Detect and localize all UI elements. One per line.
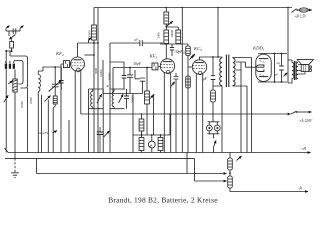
capacitor C7 xyxy=(124,96,129,98)
tube V1 KF4 xyxy=(71,57,85,71)
wire output verticals xyxy=(275,54,282,83)
switch S5 (battery switch top right) xyxy=(292,9,297,13)
wire x36 drop xyxy=(37,158,227,173)
wire anode net V2 xyxy=(160,43,188,45)
switch S6 xyxy=(119,94,124,103)
transformer T2 (output) xyxy=(292,63,294,79)
svg-text:KF3: KF3 xyxy=(149,54,158,60)
coil L1 (antenna coil, iron core) xyxy=(13,79,17,92)
resistor R3 xyxy=(53,96,57,104)
svg-text:+B 1,5V: +B 1,5V xyxy=(294,15,307,20)
capacitor C1 (antenna series) xyxy=(13,28,16,33)
switch S2 (wave change) xyxy=(45,96,51,102)
capacitor C16 (grid block V1) xyxy=(63,61,69,68)
switch S10 xyxy=(213,141,216,148)
capacitor C9 xyxy=(170,48,175,50)
wire second frame xyxy=(41,95,43,153)
svg-text:5000: 5000 xyxy=(157,32,161,39)
capacitor C17 (V2 anode trimmer) xyxy=(174,77,179,80)
capacitor C11 (bypass with switch) xyxy=(97,132,103,134)
fuse Si3 xyxy=(228,176,233,188)
antenna terminal A2 xyxy=(20,26,24,31)
wire plate supply x213 xyxy=(212,57,214,90)
svg-text:KF4: KF4 xyxy=(55,51,64,57)
resistor R8 xyxy=(187,44,189,46)
wire coil return xyxy=(27,88,29,153)
node top bus junctions xyxy=(166,7,168,9)
ground (dashed lead + earth) xyxy=(14,158,16,172)
resistor R1 xyxy=(10,42,14,49)
svg-text:Lg: Lg xyxy=(276,61,281,65)
coil L2 (basket loops) xyxy=(10,56,28,88)
wire top anode bus xyxy=(94,7,292,9)
wire B+ rail x218 xyxy=(217,8,219,58)
wire W2 grid V2 xyxy=(113,67,161,68)
tube V2 KF3 xyxy=(160,59,174,73)
svg-text:50000: 50000 xyxy=(88,30,92,38)
resistor R2 50000 xyxy=(92,25,97,40)
svg-text:0,000: 0,000 xyxy=(29,97,34,104)
resistor R11 xyxy=(139,138,144,151)
switch S4 xyxy=(97,94,102,103)
wire main chassis bus y152 xyxy=(8,152,311,154)
switch S13 xyxy=(5,148,9,153)
switch S14 xyxy=(237,156,242,161)
svg-text:R: R xyxy=(106,84,110,88)
svg-text:50000: 50000 xyxy=(108,72,112,80)
svg-text:ca.4,5V: ca.4,5V xyxy=(38,131,49,136)
resistor R6 xyxy=(165,27,167,31)
svg-text:μF: μF xyxy=(203,77,208,81)
coil L3 (grid coil 2) xyxy=(38,75,40,92)
switch S8 xyxy=(190,54,195,59)
node anode junctions xyxy=(217,56,219,58)
svg-text:−B: −B xyxy=(297,187,302,191)
wire vertical screen line x94 xyxy=(93,8,95,153)
resistor R9 xyxy=(211,90,216,102)
switch S15 xyxy=(4,95,8,102)
wire anode top junction xyxy=(78,42,98,44)
tube V3 KC3 xyxy=(192,60,206,74)
fuse Si2 xyxy=(228,158,233,170)
switch S3 xyxy=(89,38,92,43)
node +A bus junctions xyxy=(141,113,143,115)
switch S1 (antenna selector) xyxy=(9,35,15,40)
tube V4 KDD1 xyxy=(256,54,271,81)
wire bias row xyxy=(133,114,170,135)
capacitor C15 xyxy=(135,70,145,94)
switch S18 xyxy=(170,82,174,88)
resistor R14 (V3 grid) xyxy=(186,76,191,88)
trimmer C5 xyxy=(59,81,64,84)
resistor R12 xyxy=(160,135,162,138)
capacitor C14 xyxy=(127,68,133,94)
node ant junction dots xyxy=(5,50,7,52)
fuse Si1 xyxy=(299,8,308,12)
variable capacitor C4 (tuning) xyxy=(52,84,59,87)
svg-text:20000: 20000 xyxy=(170,30,174,38)
capacitor C6 xyxy=(140,40,143,46)
capacitor C8b (grid block V2) xyxy=(152,63,158,70)
svg-text:0,000: 0,000 xyxy=(20,101,25,108)
switch S11 xyxy=(284,73,288,77)
potentiometer R4 xyxy=(146,68,148,92)
coil L5 (cell 2) xyxy=(110,89,125,109)
svg-text:Brandt, 198 B2, Batterie, 2 Kr: Brandt, 198 B2, Batterie, 2 Kreise xyxy=(108,195,218,204)
svg-text:μF: μF xyxy=(275,73,280,77)
resistor R7 xyxy=(166,27,178,30)
speaker LS xyxy=(297,60,313,65)
wire screen stub xyxy=(84,54,94,56)
wire AVC rails xyxy=(69,104,89,153)
wire grid V3 xyxy=(188,66,192,68)
terminal +A 120V xyxy=(297,111,312,113)
wire W1 coupling top xyxy=(110,42,163,44)
wire -B chain xyxy=(229,153,231,159)
svg-text:μF: μF xyxy=(135,38,140,42)
resistor R5 (top dropping) xyxy=(165,8,167,13)
svg-text:10000: 10000 xyxy=(99,69,103,77)
wire anode V4 xyxy=(258,53,287,56)
wire left rail x9 xyxy=(6,51,11,153)
lamp La1 xyxy=(151,135,153,141)
resistor R10 (bias top) xyxy=(141,114,143,119)
coil L4 (RF choke cell 1) xyxy=(89,89,104,153)
svg-text:5000: 5000 xyxy=(94,68,98,75)
svg-text:KC3: KC3 xyxy=(193,46,202,52)
wire vertical supply x98 xyxy=(97,8,99,153)
svg-text:+H: +H xyxy=(301,147,306,151)
antenna terminal A1 xyxy=(6,26,10,31)
svg-text:20000: 20000 xyxy=(130,95,134,103)
svg-text:+A 120V: +A 120V xyxy=(299,119,313,123)
svg-text:KDD1: KDD1 xyxy=(252,46,265,52)
resistor R13 (V1 grid leak, line style) xyxy=(103,60,110,153)
transformer T1 (AF interstage) xyxy=(221,57,223,58)
wire anode V3 to transformer xyxy=(200,57,223,60)
wire +A bus y115.5 xyxy=(81,113,291,115)
capacitor C10 xyxy=(211,76,216,80)
wire speaker feed xyxy=(288,8,292,84)
wire antenna xyxy=(6,30,20,32)
wire long screen rail x182 xyxy=(181,8,183,153)
capacitor C12 xyxy=(279,66,284,70)
svg-text:50pF: 50pF xyxy=(134,62,142,66)
switch contacts xyxy=(5,64,7,69)
wire second bus y158 xyxy=(5,157,195,159)
switch S12 xyxy=(291,111,296,114)
switch S7 xyxy=(166,21,173,26)
switch S9 (grid V3) xyxy=(190,56,194,60)
jack J1 J2 (phone sockets) xyxy=(208,118,220,122)
wire grid V1 xyxy=(61,64,72,90)
